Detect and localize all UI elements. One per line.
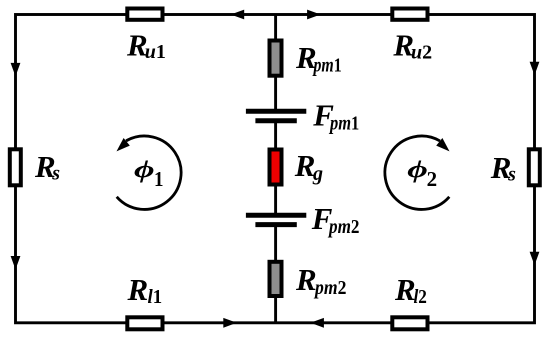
arrow bottom-left pointing right (223, 318, 237, 328)
svg-text:u1: u1 (145, 41, 166, 63)
svg-text:pm2: pm2 (313, 277, 346, 299)
svg-text:ϕ: ϕ (134, 156, 155, 183)
resistor Rl2 (392, 317, 427, 329)
mmf source Fpm1 long plate (246, 109, 306, 114)
arrow left wire upper pointing down (11, 63, 21, 77)
svg-text:u2: u2 (411, 42, 432, 64)
mmf source Fpm2 long plate (246, 213, 306, 218)
arrow right wire upper pointing down (530, 62, 540, 76)
wire center branch middle segment (274, 121, 277, 215)
resistor Rs left (10, 149, 21, 185)
arrow right wire lower pointing down (530, 252, 540, 265)
mmf source Fpm1 short plate (255, 118, 296, 123)
svg-text:l1: l1 (148, 286, 163, 308)
wire center branch upper segment (274, 15, 277, 112)
flux loop phi1 arc (counterclockwise) (117, 136, 182, 209)
arrow top-right pointing right (307, 10, 321, 20)
svg-text:R: R (127, 272, 149, 307)
resistor Rs right (529, 149, 540, 185)
svg-text:pm2: pm2 (327, 216, 359, 238)
svg-text:pm1: pm1 (328, 112, 359, 134)
svg-text:2: 2 (427, 167, 438, 191)
svg-text:l2: l2 (414, 286, 427, 308)
svg-text:ϕ: ϕ (407, 156, 428, 183)
wire center branch lower segment (274, 225, 277, 323)
arrow left wire lower pointing down (11, 256, 21, 270)
svg-text:s: s (51, 163, 60, 185)
flux loop phi2 arc (clockwise, mirror) (385, 136, 450, 209)
svg-text:1: 1 (154, 167, 164, 191)
arrow bottom-right pointing left (310, 318, 324, 328)
svg-text:R: R (394, 272, 416, 307)
resistor Rl1 (127, 317, 162, 329)
resistor Rpm1 (gray) (270, 41, 282, 76)
resistor Ru2 (392, 9, 427, 20)
svg-text:g: g (312, 163, 323, 185)
resistor Rpm2 (gray) (270, 262, 282, 296)
resistor Ru1 (127, 9, 162, 20)
mmf source Fpm2 short plate (255, 222, 296, 227)
svg-text:pm1: pm1 (312, 55, 342, 77)
resistor Rg (red air-gap) (270, 150, 282, 185)
arrow top-left pointing left (231, 10, 245, 20)
svg-text:R: R (295, 262, 317, 297)
svg-text:s: s (507, 164, 516, 186)
